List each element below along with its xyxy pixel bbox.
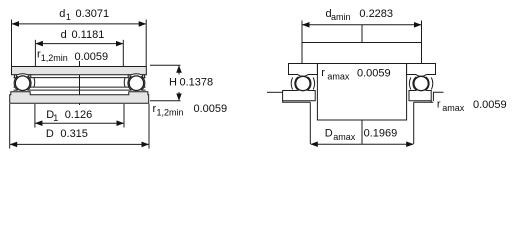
svg-text:1,2min: 1,2min	[157, 108, 184, 118]
svg-text:0.3071: 0.3071	[76, 8, 110, 20]
svg-text:amin: amin	[331, 12, 351, 22]
svg-text:d: d	[61, 29, 67, 41]
svg-text:amax: amax	[327, 72, 350, 82]
svg-text:0.0059: 0.0059	[75, 51, 109, 63]
svg-text:0.1378: 0.1378	[180, 76, 214, 88]
svg-text:0.0059: 0.0059	[194, 103, 228, 115]
svg-text:H: H	[169, 76, 177, 88]
svg-text:0.126: 0.126	[65, 109, 93, 121]
svg-text:0.0059: 0.0059	[473, 99, 507, 111]
svg-text:d: d	[59, 8, 65, 20]
svg-text:r: r	[437, 99, 441, 111]
svg-text:D: D	[46, 128, 54, 140]
svg-text:0.1181: 0.1181	[72, 29, 105, 41]
svg-text:1: 1	[53, 113, 58, 123]
svg-text:0.2283: 0.2283	[359, 8, 393, 20]
svg-text:amax: amax	[442, 103, 465, 113]
svg-text:amax: amax	[333, 132, 356, 142]
svg-text:1: 1	[66, 12, 71, 22]
svg-text:D: D	[325, 128, 333, 140]
svg-text:0.1969: 0.1969	[364, 128, 398, 140]
svg-text:r: r	[321, 67, 325, 79]
svg-text:0.0059: 0.0059	[357, 68, 391, 80]
svg-text:0.315: 0.315	[60, 128, 88, 140]
svg-text:1,2min: 1,2min	[41, 53, 68, 63]
